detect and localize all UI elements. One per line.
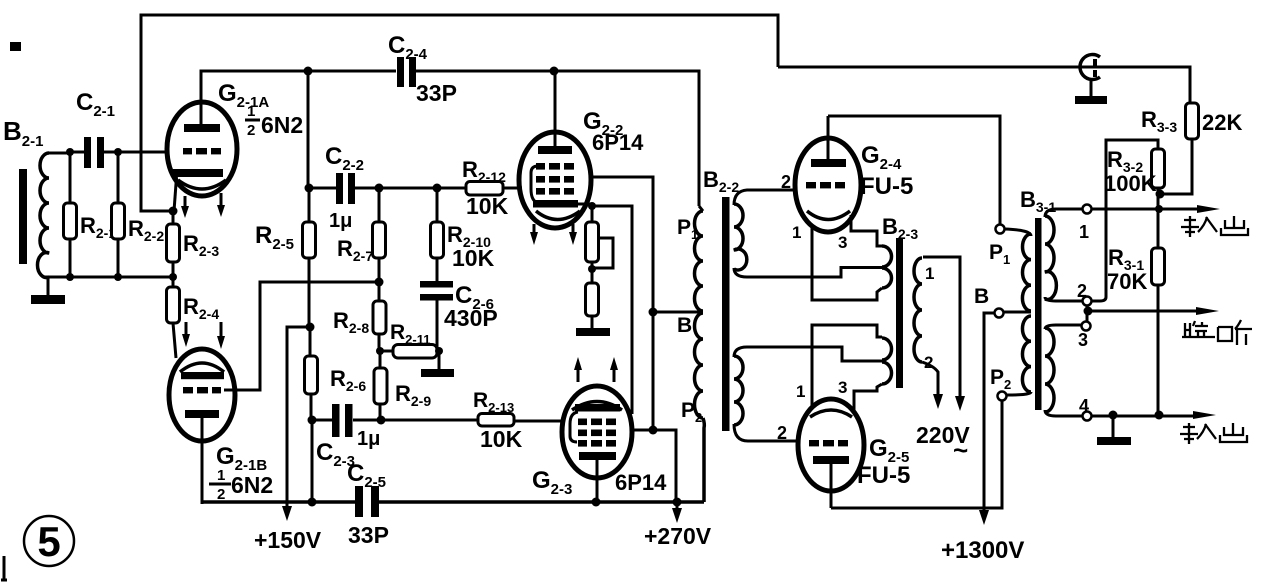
- triode G2-4 FU-5: [781, 116, 913, 252]
- pentode G2-3: [532, 357, 667, 502]
- wire monitor line: [1088, 307, 1219, 315]
- resistor R2-10 10K: [431, 188, 495, 281]
- svg-text:10K: 10K: [466, 193, 509, 219]
- resistor R2-5: [255, 188, 316, 327]
- svg-text:+150V: +150V: [254, 527, 322, 553]
- terminal B B3-1: [974, 285, 1004, 318]
- node junction C2-1 right: [114, 148, 122, 156]
- resistor cathode lower: [576, 262, 610, 336]
- svg-text:2: 2: [247, 122, 255, 139]
- svg-text:22K: 22K: [1202, 110, 1242, 135]
- label output bottom: [1180, 423, 1247, 444]
- capacitor C2-5 33P: [347, 460, 389, 548]
- node junction G2-3 anode bus: [592, 498, 601, 507]
- node junction R3-3 R3-2: [1156, 190, 1165, 199]
- svg-text:FU-5: FU-5: [860, 173, 913, 200]
- stray mark bottom left: [1, 556, 7, 580]
- node junction R2-1 ground bus: [66, 273, 74, 281]
- svg-text:1: 1: [247, 103, 255, 120]
- resistor R2-9: [374, 351, 431, 420]
- svg-text:1: 1: [217, 467, 225, 484]
- svg-text:1μ: 1μ: [329, 210, 352, 232]
- svg-text:2: 2: [1077, 281, 1087, 301]
- wire to R2-13: [381, 420, 562, 421]
- wire anode bus G2-1B: [203, 500, 704, 504]
- resistor R2-7: [337, 188, 386, 282]
- svg-text:2: 2: [924, 353, 933, 372]
- svg-text:1μ: 1μ: [357, 428, 380, 450]
- svg-text:1: 1: [796, 382, 805, 401]
- wire grid G2-1B to divider: [224, 282, 379, 390]
- resistor R2-8: [333, 282, 386, 351]
- pentode G2-2: [519, 71, 644, 245]
- wire output line 2: [1092, 411, 1216, 419]
- node junction monitor tap: [1084, 307, 1093, 316]
- svg-text:1: 1: [792, 223, 801, 242]
- wire G2-5 anode to P2 terminal: [831, 401, 1002, 508]
- svg-text:2: 2: [777, 423, 787, 443]
- node junction G2-1A cathode: [169, 207, 178, 216]
- svg-text:1: 1: [1079, 222, 1089, 242]
- resistor R2-6: [305, 327, 367, 420]
- svg-text:1: 1: [925, 264, 934, 283]
- terminal 4: [1079, 396, 1092, 421]
- wire output line 1: [1092, 205, 1220, 213]
- svg-text:6P14: 6P14: [615, 470, 667, 495]
- node junction C2-1 left: [66, 148, 74, 156]
- node C ground point: [1075, 55, 1107, 104]
- wire B feed +1300V: [941, 313, 1024, 564]
- wire R2-6 column to bus: [311, 420, 314, 502]
- transformer B3-1 core: [1020, 187, 1056, 410]
- wire ground bus left: [44, 276, 173, 279]
- svg-text:6N2: 6N2: [231, 472, 273, 498]
- capacitor C2-6 430P: [420, 281, 498, 351]
- svg-text:430P: 430P: [444, 305, 498, 331]
- transformer B2-2 primary P1: [677, 167, 739, 311]
- transformer B3-1 secondary winding 1-2: [1045, 209, 1082, 301]
- node junction R2-2 ground bus: [114, 273, 122, 281]
- svg-text:6N2: 6N2: [261, 112, 303, 138]
- ground output: [1097, 416, 1131, 445]
- node junction C2-3 right: [377, 416, 386, 425]
- resistor R3-3 22K: [1141, 103, 1242, 194]
- svg-text:FU-5: FU-5: [857, 462, 910, 489]
- triode G2-1A: [167, 80, 303, 218]
- transformer B3-1 primary winding: [1004, 229, 1031, 395]
- wire B2-2 B tap to screen line: [653, 311, 703, 314]
- node junction G2-3 screen: [649, 426, 658, 435]
- svg-text:3: 3: [838, 378, 847, 397]
- wire G2-4 anode to P1 terminal: [828, 116, 1000, 224]
- node junction R3-1 output: [1155, 411, 1164, 420]
- svg-text:+270V: +270V: [644, 523, 712, 549]
- resistor R2-3: [167, 224, 220, 277]
- node junction R2-3 R2-4: [169, 273, 177, 281]
- transformer B2-3 filament winding lower: [796, 325, 892, 412]
- resistor R3-1 70K: [1107, 209, 1165, 415]
- wire G2-2 cathode to G2-3 cathode: [592, 206, 632, 414]
- terminal P1 B3-1: [989, 225, 1010, 268]
- wire G2-3 screen to +270V node: [631, 430, 676, 502]
- node junction R2-5 +150V: [306, 323, 315, 332]
- label monitor: [1182, 320, 1252, 345]
- node junction R2-7 R2-8: [375, 278, 384, 287]
- wire C2-2 line: [308, 187, 522, 190]
- transformer B2-2 secondary winding 2: [734, 347, 877, 441]
- wire +150V feed: [254, 327, 322, 553]
- wire top feedback line: [141, 15, 778, 211]
- wire feedback upper right segment to C point: [778, 67, 1190, 103]
- node junction R2-11 C2-6: [435, 347, 443, 355]
- resistor R2-12 10K: [462, 157, 509, 219]
- transformer B2-2 secondary winding 1: [734, 190, 877, 277]
- transformer B2-3 mains winding: [914, 257, 970, 465]
- wire terminals 2-3 junction: [1086, 306, 1089, 321]
- transformer B2-3 core: [882, 214, 918, 388]
- wire screen grid line: [589, 177, 653, 430]
- svg-text:5: 5: [37, 518, 60, 565]
- label output top: [1181, 216, 1248, 237]
- node junction cathode resistors: [588, 265, 596, 273]
- ground input bus: [31, 277, 65, 304]
- capacitor C2-4 33P: [388, 32, 457, 106]
- node junction R2-6 bus: [308, 498, 317, 507]
- resistor R2-13 10K: [473, 389, 523, 452]
- node junction C2-2 right: [375, 184, 384, 193]
- wire +270V feed: [644, 502, 712, 549]
- svg-text:+1300V: +1300V: [941, 537, 1024, 564]
- svg-text:B: B: [974, 285, 989, 308]
- svg-text:10K: 10K: [480, 426, 523, 452]
- svg-text:3: 3: [1078, 330, 1088, 350]
- wire B+ rail from G2-1A anode to B2-2: [201, 71, 699, 206]
- svg-text:3: 3: [838, 233, 847, 252]
- svg-text:2: 2: [781, 172, 791, 192]
- wire input line: [70, 151, 167, 154]
- figure number 5: [24, 516, 74, 566]
- terminal P2 B3-1: [990, 366, 1011, 401]
- wire cathode junction G2-1A: [172, 211, 175, 224]
- node junction G2-2 anode: [550, 67, 559, 76]
- resistor R2-4: [167, 277, 220, 358]
- triode G2-1B: [169, 322, 273, 504]
- node junction B tap screen line: [649, 308, 658, 317]
- stray mark top left: [10, 42, 21, 51]
- transformer B2-2 core: [722, 197, 730, 431]
- svg-text:B: B: [677, 314, 692, 337]
- resistor R3-2 100K: [1092, 140, 1165, 301]
- resistor R2-2: [112, 152, 165, 277]
- resistor R2-11: [380, 321, 439, 358]
- node junction output ground: [1109, 411, 1118, 420]
- node junction G2-2 cathode: [588, 202, 596, 210]
- node junction output feedback: [1155, 205, 1163, 213]
- resistor R2-1: [64, 152, 117, 277]
- svg-text:10K: 10K: [452, 245, 495, 271]
- transformer B2-3 filament winding upper: [812, 215, 892, 300]
- node junction C2-2 left: [305, 184, 314, 193]
- capacitor C2-2 1u: [325, 143, 364, 232]
- svg-text:100K: 100K: [1104, 171, 1157, 196]
- node junction B+ rail left: [304, 67, 313, 76]
- transformer B2-1 input: [3, 116, 70, 278]
- ground under R2-11: [421, 351, 454, 377]
- capacitor C2-1: [76, 89, 115, 168]
- transformer B3-1 secondary winding 3-4: [1045, 325, 1082, 416]
- svg-text:33P: 33P: [348, 522, 389, 548]
- terminal 2: [1077, 281, 1092, 306]
- node junction C2-3 left: [308, 416, 317, 425]
- svg-text:33P: 33P: [416, 80, 457, 106]
- svg-text:~: ~: [953, 435, 968, 465]
- terminal 3: [1078, 322, 1091, 351]
- triode G2-5 FU-5: [777, 399, 910, 508]
- svg-text:6P14: 6P14: [592, 130, 644, 155]
- node junction R2-10 top: [433, 184, 442, 193]
- transformer B2-2 primary P2: [681, 313, 704, 502]
- capacitor C2-3 1u: [312, 404, 381, 470]
- resistor cathode upper: [586, 206, 614, 268]
- svg-text:4: 4: [1079, 396, 1089, 416]
- terminal 1: [1079, 205, 1092, 243]
- wire from B+ rail down to C2-2 node: [307, 71, 310, 188]
- node junction +270V bus: [673, 498, 682, 507]
- node junction R2-8 R2-9: [376, 347, 384, 355]
- svg-text:70K: 70K: [1107, 269, 1147, 294]
